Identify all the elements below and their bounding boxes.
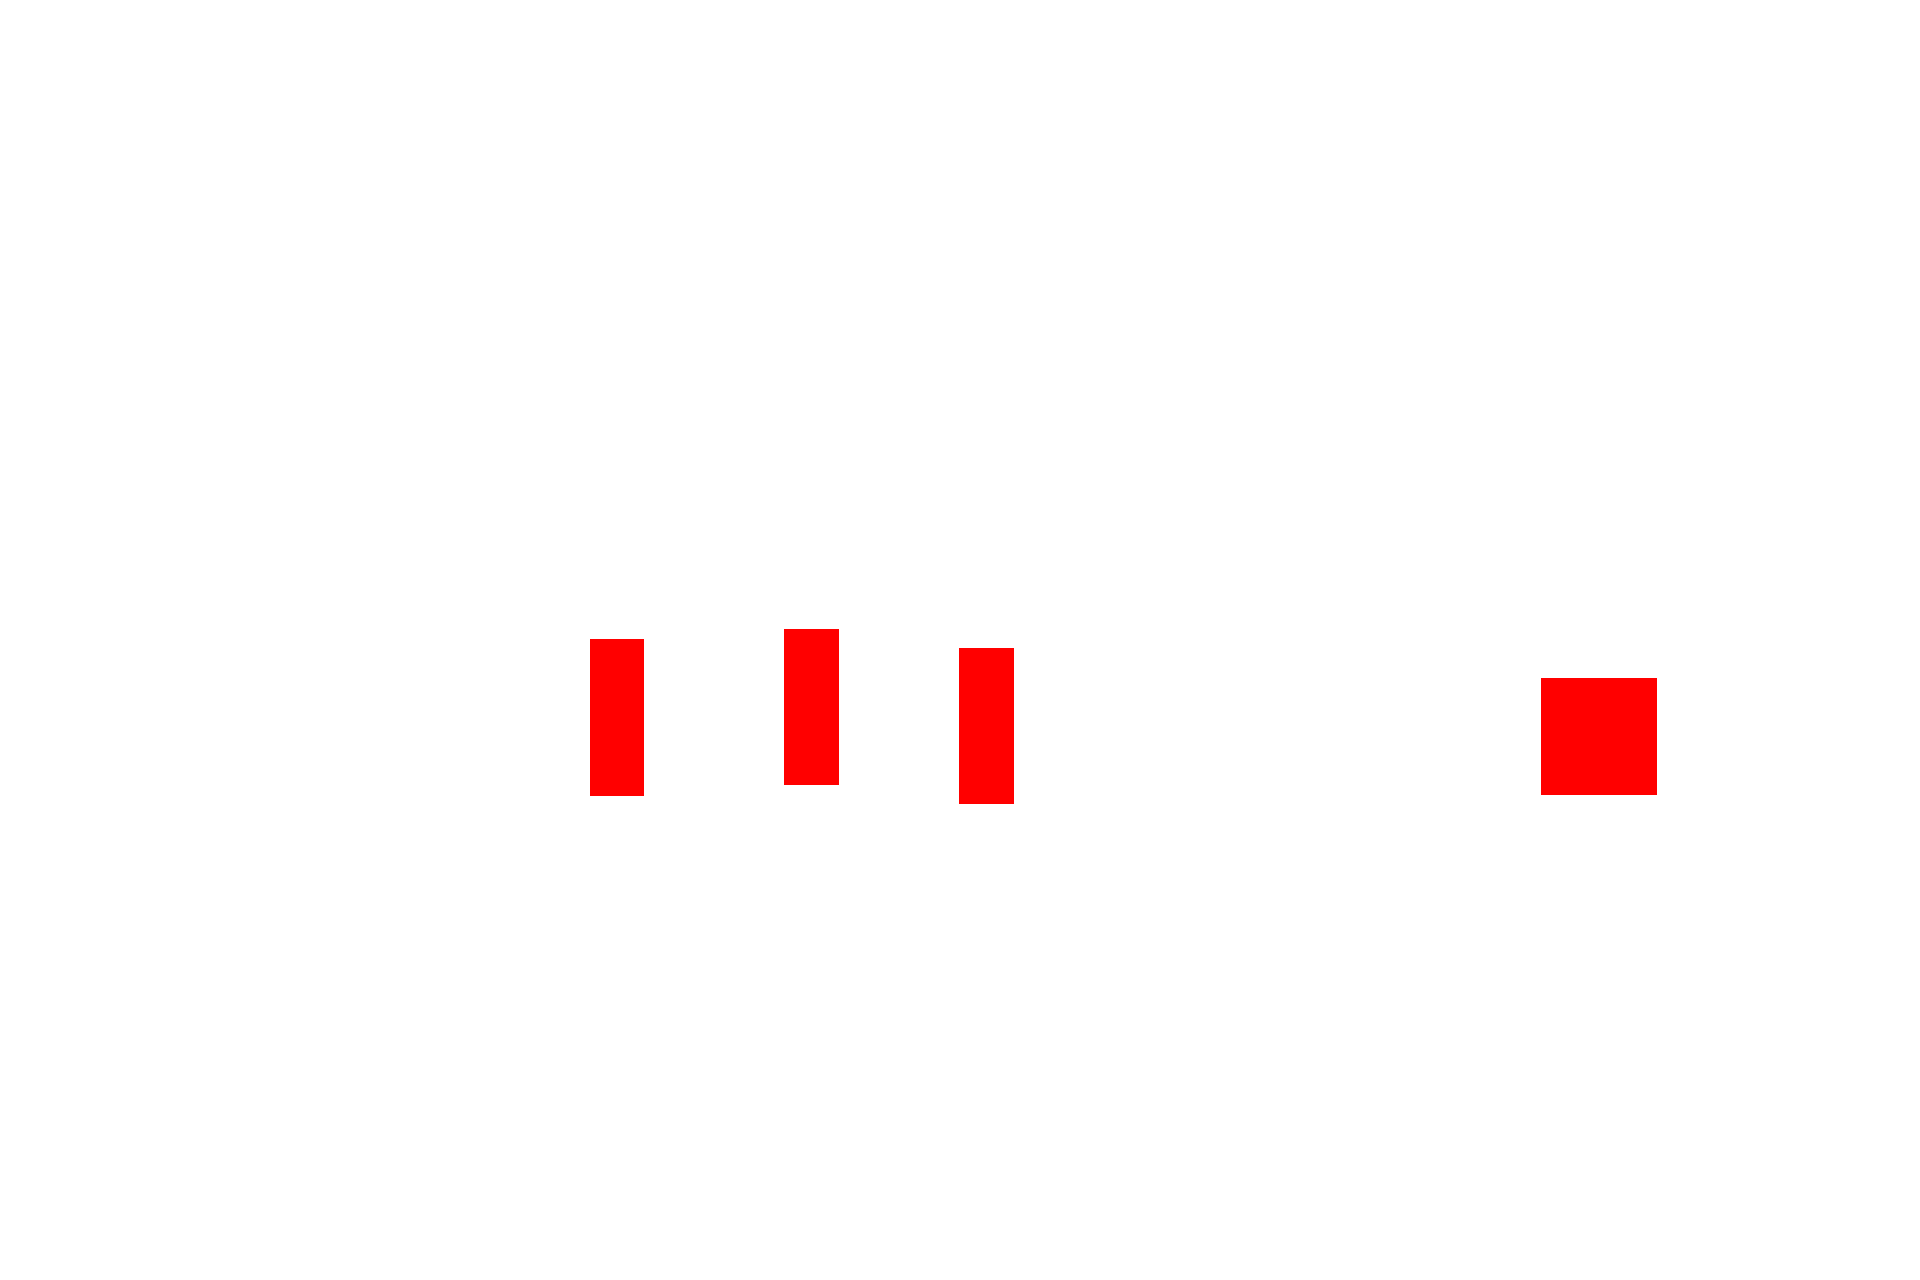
red bar 3 <box>959 648 1014 804</box>
red bar 1 <box>590 639 644 796</box>
red square <box>1541 678 1657 795</box>
red bar 2 <box>784 629 839 785</box>
